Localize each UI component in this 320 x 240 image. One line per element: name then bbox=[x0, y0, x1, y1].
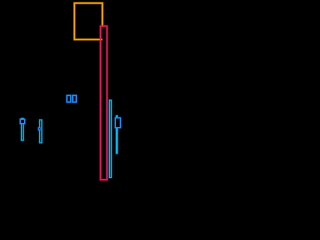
left candle 2 narrow rectangle bbox=[40, 120, 42, 143]
candlestick wick (center) bbox=[116, 115, 118, 154]
small rect pair ("00") right bbox=[73, 95, 77, 102]
left candle 1 body square bbox=[20, 119, 24, 123]
small rect pair ("00") left bbox=[67, 95, 71, 102]
glow halo layer bbox=[20, 3, 120, 180]
candlestick body (center) bbox=[115, 118, 120, 128]
crimson tall rectangle bbox=[101, 26, 108, 180]
orange rectangle (open right edge) bbox=[74, 3, 102, 39]
left candle 1 narrow tail rectangle bbox=[21, 118, 23, 140]
left candle 2 bump square bbox=[38, 128, 40, 130]
blue narrow tall rectangle bbox=[109, 100, 111, 177]
